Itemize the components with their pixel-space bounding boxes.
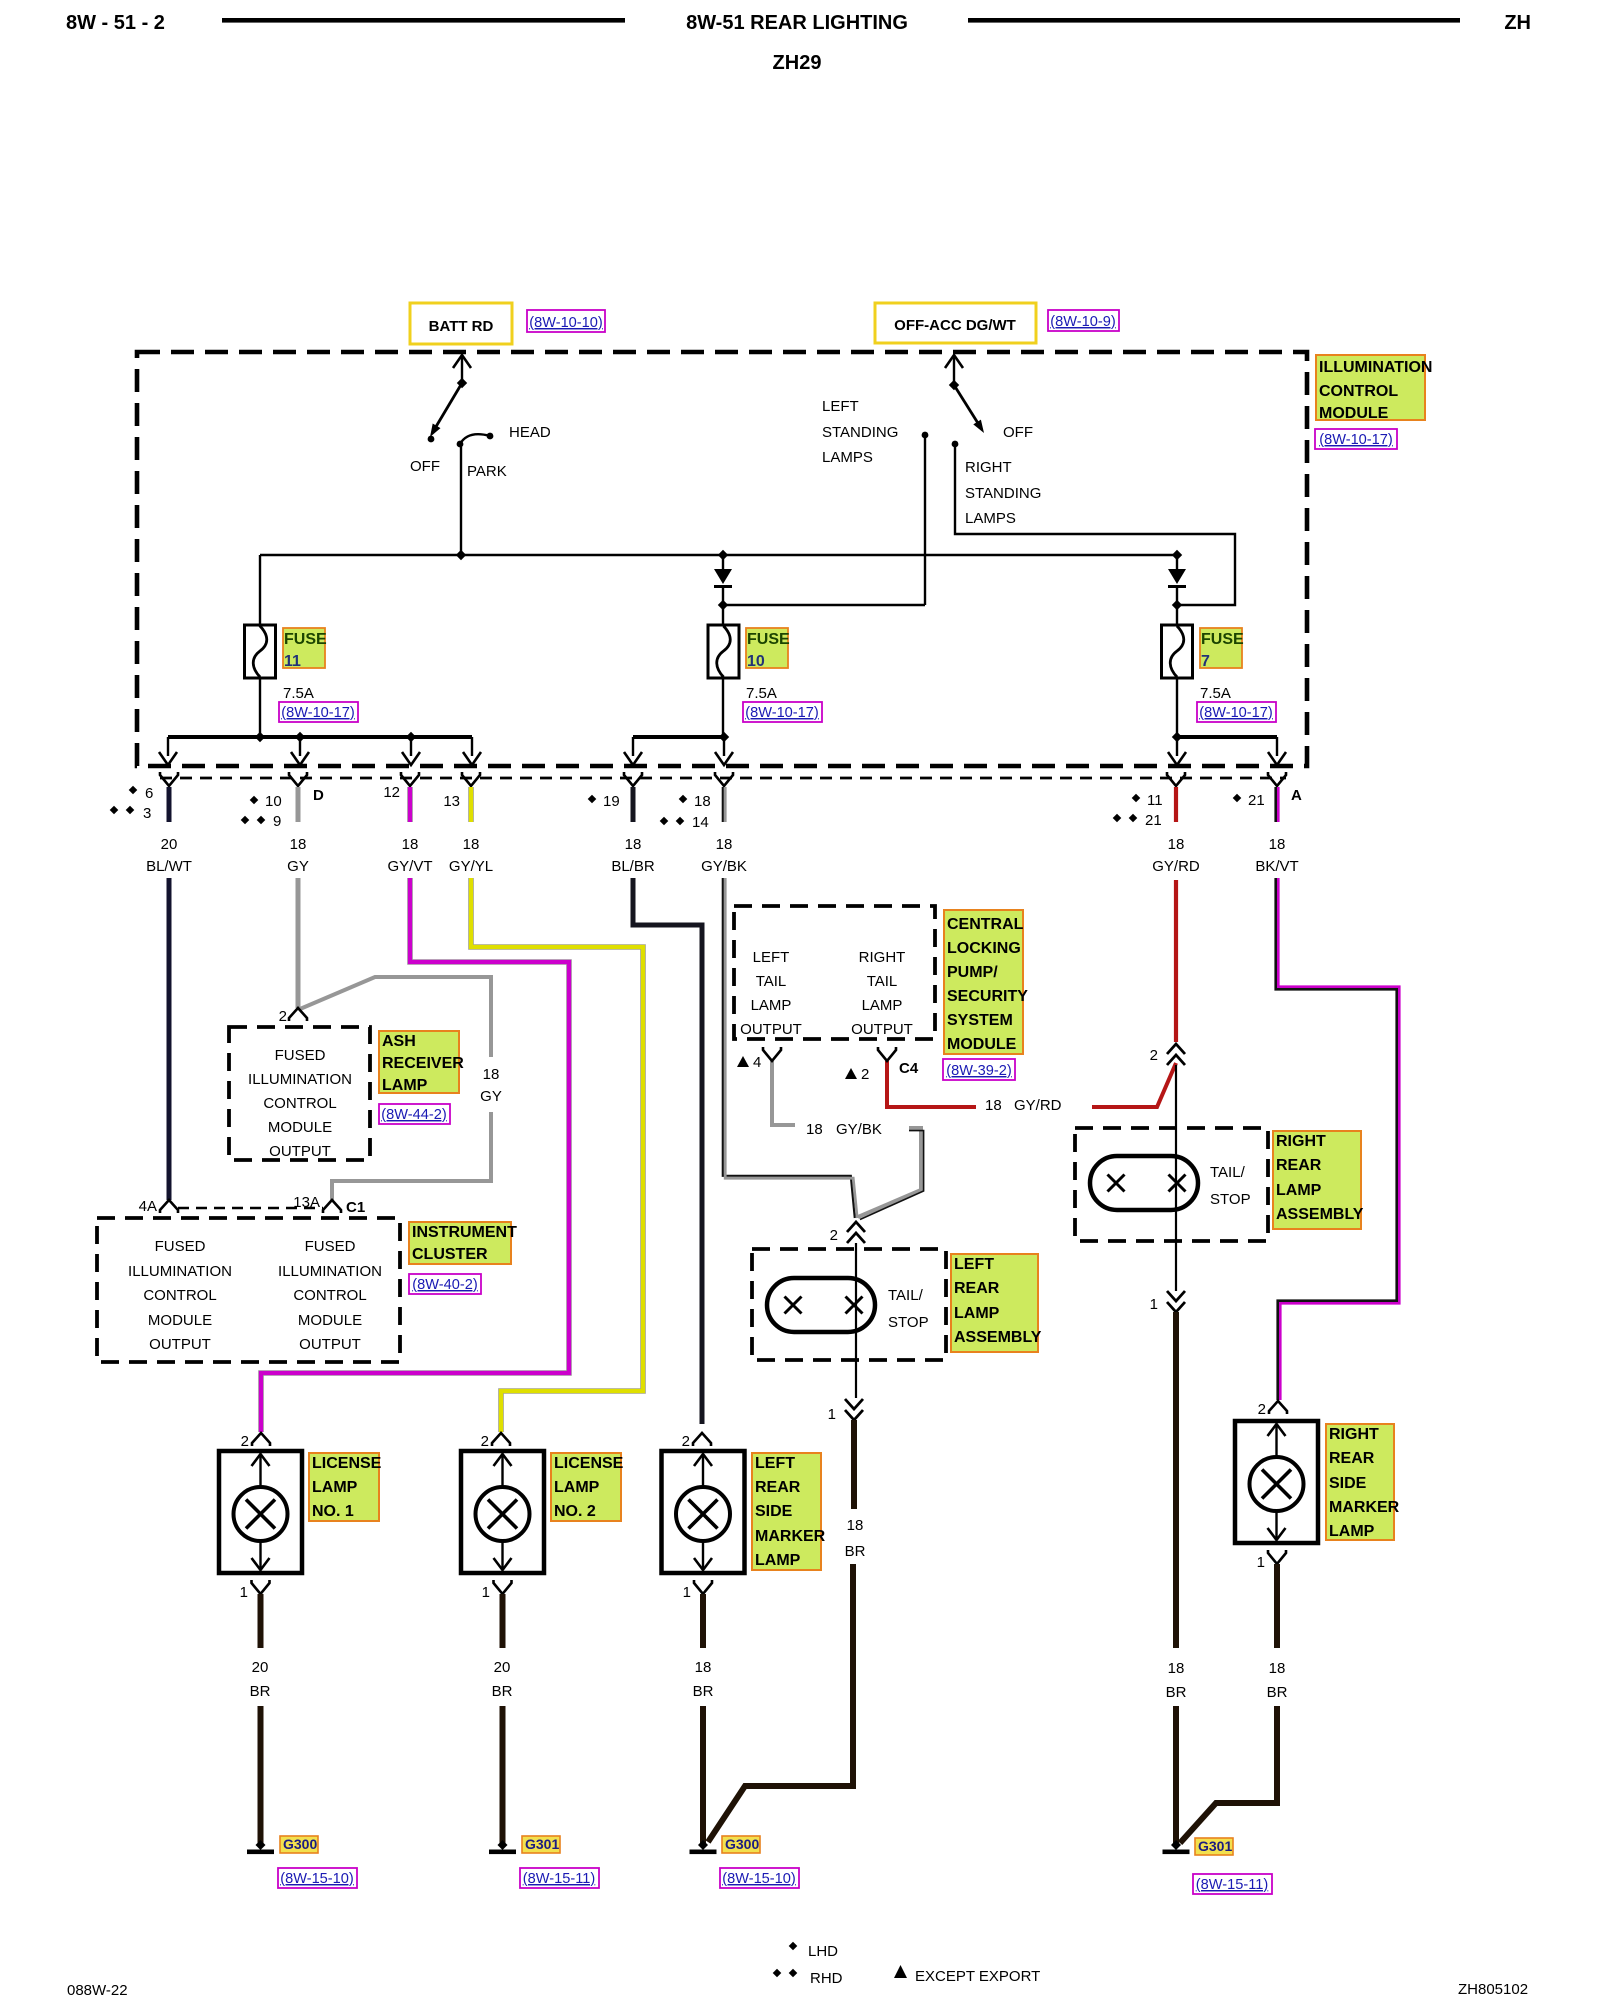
svg-text:G300: G300 bbox=[283, 1836, 317, 1852]
svg-text:HEAD: HEAD bbox=[509, 424, 551, 441]
svg-text:7: 7 bbox=[1201, 653, 1210, 670]
svg-text:RECEIVER: RECEIVER bbox=[382, 1055, 464, 1072]
svg-text:10: 10 bbox=[265, 793, 282, 810]
svg-text:21: 21 bbox=[1145, 812, 1162, 829]
svg-text:2: 2 bbox=[1150, 1047, 1158, 1064]
svg-text:GY/VT: GY/VT bbox=[387, 858, 432, 875]
svg-text:7.5A: 7.5A bbox=[283, 685, 314, 702]
svg-text:LHD: LHD bbox=[808, 1943, 838, 1960]
svg-text:FUSED: FUSED bbox=[305, 1238, 356, 1255]
svg-text:A: A bbox=[1291, 787, 1302, 804]
svg-text:(8W-10-9): (8W-10-9) bbox=[1050, 314, 1115, 330]
svg-text:LAMP: LAMP bbox=[554, 1479, 600, 1496]
svg-text:1: 1 bbox=[683, 1584, 691, 1601]
svg-text:REAR: REAR bbox=[1276, 1157, 1322, 1174]
svg-text:14: 14 bbox=[692, 814, 709, 831]
svg-text:OFF: OFF bbox=[1003, 424, 1033, 441]
svg-text:REAR: REAR bbox=[755, 1479, 801, 1496]
svg-text:CONTROL: CONTROL bbox=[293, 1287, 366, 1304]
svg-text:FUSED: FUSED bbox=[155, 1238, 206, 1255]
svg-text:G300: G300 bbox=[725, 1836, 759, 1852]
svg-text:LEFT: LEFT bbox=[954, 1256, 994, 1273]
svg-text:20: 20 bbox=[252, 1659, 269, 1676]
svg-text:BR: BR bbox=[250, 1683, 271, 1700]
svg-text:CONTROL: CONTROL bbox=[1319, 383, 1398, 400]
svg-text:FUSED: FUSED bbox=[275, 1047, 326, 1064]
svg-text:(8W-10-17): (8W-10-17) bbox=[1199, 705, 1273, 721]
svg-text:STOP: STOP bbox=[1210, 1191, 1251, 1208]
svg-text:1: 1 bbox=[482, 1584, 490, 1601]
svg-text:6: 6 bbox=[145, 785, 153, 802]
svg-text:1: 1 bbox=[1257, 1554, 1265, 1571]
svg-text:MODULE: MODULE bbox=[268, 1119, 332, 1136]
svg-text:18: 18 bbox=[1269, 836, 1286, 853]
svg-text:STOP: STOP bbox=[888, 1314, 929, 1331]
svg-text:18: 18 bbox=[695, 1659, 712, 1676]
svg-text:LAMP: LAMP bbox=[862, 997, 903, 1014]
svg-text:OUTPUT: OUTPUT bbox=[269, 1143, 331, 1160]
svg-text:GY/RD: GY/RD bbox=[1014, 1097, 1062, 1114]
svg-text:4A: 4A bbox=[139, 1198, 157, 1215]
svg-text:NO. 1: NO. 1 bbox=[312, 1503, 354, 1520]
svg-text:MODULE: MODULE bbox=[1319, 405, 1389, 422]
svg-text:C1: C1 bbox=[346, 1199, 365, 1216]
svg-text:LAMP: LAMP bbox=[312, 1479, 358, 1496]
svg-text:BL/WT: BL/WT bbox=[146, 858, 192, 875]
svg-text:20: 20 bbox=[494, 1659, 511, 1676]
svg-text:18: 18 bbox=[290, 836, 307, 853]
svg-text:LAMP: LAMP bbox=[1329, 1523, 1375, 1540]
svg-text:ZH: ZH bbox=[1504, 12, 1531, 34]
svg-text:LAMP: LAMP bbox=[954, 1305, 1000, 1322]
svg-text:BATT RD: BATT RD bbox=[429, 318, 494, 335]
svg-text:18: 18 bbox=[1168, 836, 1185, 853]
svg-text:LAMP: LAMP bbox=[1276, 1182, 1322, 1199]
svg-text:LEFT: LEFT bbox=[822, 398, 859, 415]
svg-text:RIGHT: RIGHT bbox=[965, 459, 1012, 476]
svg-text:MARKER: MARKER bbox=[1329, 1499, 1400, 1516]
svg-text:BR: BR bbox=[1166, 1684, 1187, 1701]
svg-text:18: 18 bbox=[402, 836, 419, 853]
svg-text:ILLUMINATION: ILLUMINATION bbox=[278, 1263, 382, 1280]
svg-text:(8W-10-17): (8W-10-17) bbox=[745, 705, 819, 721]
svg-text:FUSE: FUSE bbox=[1201, 631, 1244, 648]
svg-text:1: 1 bbox=[828, 1406, 836, 1423]
svg-text:10: 10 bbox=[747, 653, 765, 670]
svg-text:2: 2 bbox=[279, 1008, 287, 1025]
svg-text:STANDING: STANDING bbox=[822, 424, 898, 441]
svg-text:ASSEMBLY: ASSEMBLY bbox=[954, 1329, 1042, 1346]
svg-text:MODULE: MODULE bbox=[298, 1312, 362, 1329]
svg-text:G301: G301 bbox=[525, 1836, 559, 1852]
svg-text:18: 18 bbox=[694, 793, 711, 810]
svg-text:BR: BR bbox=[492, 1683, 513, 1700]
svg-text:(8W-10-17): (8W-10-17) bbox=[1319, 432, 1393, 448]
svg-text:2: 2 bbox=[861, 1066, 869, 1083]
svg-text:LOCKING: LOCKING bbox=[947, 940, 1021, 957]
svg-text:EXCEPT EXPORT: EXCEPT EXPORT bbox=[915, 1968, 1040, 1985]
svg-text:18: 18 bbox=[806, 1121, 823, 1138]
svg-text:18: 18 bbox=[625, 836, 642, 853]
svg-text:2: 2 bbox=[682, 1433, 690, 1450]
svg-text:(8W-15-10): (8W-15-10) bbox=[722, 1871, 796, 1887]
svg-text:BR: BR bbox=[1267, 1684, 1288, 1701]
svg-text:19: 19 bbox=[603, 793, 620, 810]
svg-text:LEFT: LEFT bbox=[753, 949, 790, 966]
svg-text:2: 2 bbox=[1258, 1401, 1266, 1418]
svg-text:CENTRAL: CENTRAL bbox=[947, 916, 1024, 933]
svg-text:8W - 51 - 2: 8W - 51 - 2 bbox=[66, 12, 165, 34]
svg-text:1: 1 bbox=[1150, 1296, 1158, 1313]
svg-text:18: 18 bbox=[463, 836, 480, 853]
svg-text:RIGHT: RIGHT bbox=[1276, 1133, 1326, 1150]
svg-text:(8W-10-17): (8W-10-17) bbox=[281, 705, 355, 721]
svg-text:FUSE: FUSE bbox=[284, 631, 327, 648]
svg-text:4: 4 bbox=[753, 1054, 761, 1071]
svg-text:ILLUMINATION: ILLUMINATION bbox=[1319, 359, 1432, 376]
svg-text:OFF-ACC DG/WT: OFF-ACC DG/WT bbox=[894, 317, 1016, 334]
svg-text:11: 11 bbox=[284, 653, 301, 670]
svg-text:1: 1 bbox=[240, 1584, 248, 1601]
svg-text:GY/RD: GY/RD bbox=[1152, 858, 1200, 875]
svg-text:(8W-15-11): (8W-15-11) bbox=[523, 1871, 595, 1887]
svg-text:LAMPS: LAMPS bbox=[822, 449, 873, 466]
svg-text:(8W-39-2): (8W-39-2) bbox=[946, 1063, 1011, 1079]
svg-text:11: 11 bbox=[1147, 792, 1163, 809]
svg-text:7.5A: 7.5A bbox=[746, 685, 777, 702]
svg-text:18: 18 bbox=[985, 1097, 1002, 1114]
svg-text:LEFT: LEFT bbox=[755, 1455, 795, 1472]
svg-text:REAR: REAR bbox=[954, 1280, 1000, 1297]
svg-text:OUTPUT: OUTPUT bbox=[299, 1336, 361, 1353]
svg-text:OUTPUT: OUTPUT bbox=[740, 1021, 802, 1038]
svg-text:OUTPUT: OUTPUT bbox=[851, 1021, 913, 1038]
svg-text:7.5A: 7.5A bbox=[1200, 685, 1231, 702]
svg-text:LAMP: LAMP bbox=[751, 997, 792, 1014]
svg-text:TAIL/: TAIL/ bbox=[888, 1287, 924, 1304]
svg-text:(8W-15-10): (8W-15-10) bbox=[280, 1871, 354, 1887]
svg-text:18: 18 bbox=[1269, 1660, 1286, 1677]
svg-text:12: 12 bbox=[383, 784, 400, 801]
svg-text:20: 20 bbox=[161, 836, 178, 853]
svg-text:TAIL: TAIL bbox=[756, 973, 787, 990]
svg-text:LAMP: LAMP bbox=[382, 1077, 428, 1094]
svg-text:OFF: OFF bbox=[410, 458, 440, 475]
svg-text:18: 18 bbox=[483, 1066, 500, 1083]
svg-text:D: D bbox=[313, 787, 324, 804]
svg-text:INSTRUMENT: INSTRUMENT bbox=[412, 1224, 517, 1241]
svg-text:8W-51 REAR LIGHTING: 8W-51 REAR LIGHTING bbox=[686, 12, 908, 34]
svg-text:MARKER: MARKER bbox=[755, 1528, 826, 1545]
svg-text:2: 2 bbox=[481, 1433, 489, 1450]
svg-text:BL/BR: BL/BR bbox=[611, 858, 655, 875]
svg-text:ASSEMBLY: ASSEMBLY bbox=[1276, 1206, 1364, 1223]
svg-text:GY/BK: GY/BK bbox=[701, 858, 747, 875]
svg-text:TAIL/: TAIL/ bbox=[1210, 1164, 1246, 1181]
svg-text:GY/YL: GY/YL bbox=[449, 858, 493, 875]
svg-text:LICENSE: LICENSE bbox=[312, 1455, 382, 1472]
svg-text:(8W-40-2): (8W-40-2) bbox=[412, 1277, 477, 1293]
svg-text:SECURITY: SECURITY bbox=[947, 988, 1028, 1005]
svg-text:BR: BR bbox=[693, 1683, 714, 1700]
svg-text:RHD: RHD bbox=[810, 1970, 843, 1987]
svg-text:GY: GY bbox=[480, 1088, 502, 1105]
svg-text:STANDING: STANDING bbox=[965, 485, 1041, 502]
svg-text:3: 3 bbox=[143, 805, 151, 822]
svg-text:2: 2 bbox=[241, 1433, 249, 1450]
svg-text:13: 13 bbox=[443, 793, 460, 810]
svg-text:2: 2 bbox=[830, 1227, 838, 1244]
svg-text:ILLUMINATION: ILLUMINATION bbox=[128, 1263, 232, 1280]
svg-text:18: 18 bbox=[847, 1517, 864, 1534]
svg-text:BR: BR bbox=[845, 1543, 866, 1560]
svg-text:G301: G301 bbox=[1198, 1838, 1232, 1854]
svg-text:C4: C4 bbox=[899, 1060, 919, 1077]
svg-text:NO. 2: NO. 2 bbox=[554, 1503, 596, 1520]
svg-text:SIDE: SIDE bbox=[755, 1503, 793, 1520]
svg-text:SYSTEM: SYSTEM bbox=[947, 1012, 1013, 1029]
svg-text:(8W-15-11): (8W-15-11) bbox=[1196, 1877, 1268, 1893]
svg-text:PUMP/: PUMP/ bbox=[947, 964, 998, 981]
svg-text:REAR: REAR bbox=[1329, 1450, 1375, 1467]
svg-text:21: 21 bbox=[1248, 792, 1265, 809]
svg-text:9: 9 bbox=[273, 813, 281, 830]
svg-text:PARK: PARK bbox=[467, 463, 507, 480]
svg-text:GY/BK: GY/BK bbox=[836, 1121, 882, 1138]
svg-text:LICENSE: LICENSE bbox=[554, 1455, 624, 1472]
svg-text:RIGHT: RIGHT bbox=[859, 949, 906, 966]
svg-text:LAMPS: LAMPS bbox=[965, 510, 1016, 527]
svg-text:CLUSTER: CLUSTER bbox=[412, 1246, 488, 1263]
svg-text:ILLUMINATION: ILLUMINATION bbox=[248, 1071, 352, 1088]
svg-text:(8W-44-2): (8W-44-2) bbox=[381, 1107, 446, 1123]
svg-text:OUTPUT: OUTPUT bbox=[149, 1336, 211, 1353]
svg-text:(8W-10-10): (8W-10-10) bbox=[529, 315, 603, 331]
svg-text:GY: GY bbox=[287, 858, 309, 875]
svg-text:ZH805102: ZH805102 bbox=[1458, 1981, 1528, 1998]
svg-text:MODULE: MODULE bbox=[148, 1312, 212, 1329]
svg-text:CONTROL: CONTROL bbox=[263, 1095, 336, 1112]
svg-text:RIGHT: RIGHT bbox=[1329, 1426, 1379, 1443]
svg-text:FUSE: FUSE bbox=[747, 631, 790, 648]
svg-text:13A: 13A bbox=[293, 1194, 320, 1211]
svg-text:BK/VT: BK/VT bbox=[1255, 858, 1298, 875]
svg-text:ZH29: ZH29 bbox=[773, 52, 822, 74]
svg-text:18: 18 bbox=[716, 836, 733, 853]
svg-text:TAIL: TAIL bbox=[867, 973, 898, 990]
svg-text:18: 18 bbox=[1168, 1660, 1185, 1677]
svg-text:ASH: ASH bbox=[382, 1033, 416, 1050]
svg-text:SIDE: SIDE bbox=[1329, 1475, 1367, 1492]
svg-text:088W-22: 088W-22 bbox=[67, 1982, 128, 1999]
svg-text:LAMP: LAMP bbox=[755, 1552, 801, 1569]
svg-text:CONTROL: CONTROL bbox=[143, 1287, 216, 1304]
svg-text:MODULE: MODULE bbox=[947, 1036, 1017, 1053]
